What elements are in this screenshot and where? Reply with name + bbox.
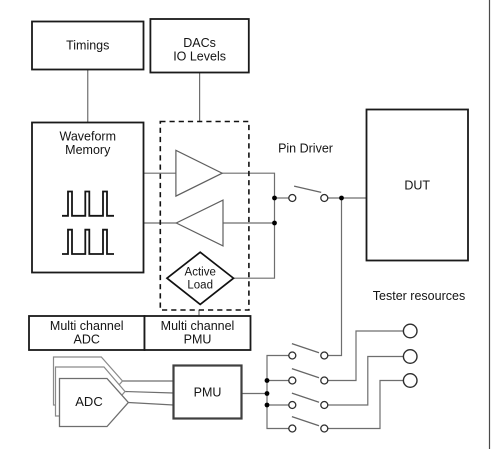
svg-text:Timings: Timings [66, 39, 109, 53]
svg-text:Waveform: Waveform [60, 130, 117, 144]
svg-text:Tester resources: Tester resources [373, 289, 465, 303]
svg-text:ADC: ADC [75, 394, 102, 409]
svg-text:Multi channel: Multi channel [50, 319, 124, 333]
svg-text:Multi channel: Multi channel [161, 319, 235, 333]
svg-text:PMU: PMU [194, 386, 222, 400]
svg-text:Memory: Memory [65, 143, 111, 157]
svg-text:ADC: ADC [74, 333, 100, 347]
svg-text:DACs: DACs [183, 36, 216, 50]
svg-text:Active: Active [185, 267, 216, 279]
svg-text:DUT: DUT [404, 179, 430, 193]
svg-text:Load: Load [187, 280, 213, 292]
svg-text:Pin Driver: Pin Driver [278, 142, 333, 156]
svg-text:PMU: PMU [184, 333, 212, 347]
svg-text:IO Levels: IO Levels [173, 50, 226, 64]
